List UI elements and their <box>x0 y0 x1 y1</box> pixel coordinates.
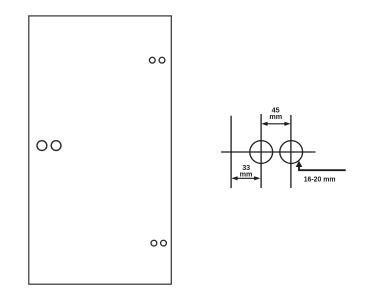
svg-text:16-20 mm: 16-20 mm <box>304 177 336 184</box>
svg-text:mm: mm <box>240 169 253 178</box>
svg-text:mm: mm <box>269 112 282 121</box>
